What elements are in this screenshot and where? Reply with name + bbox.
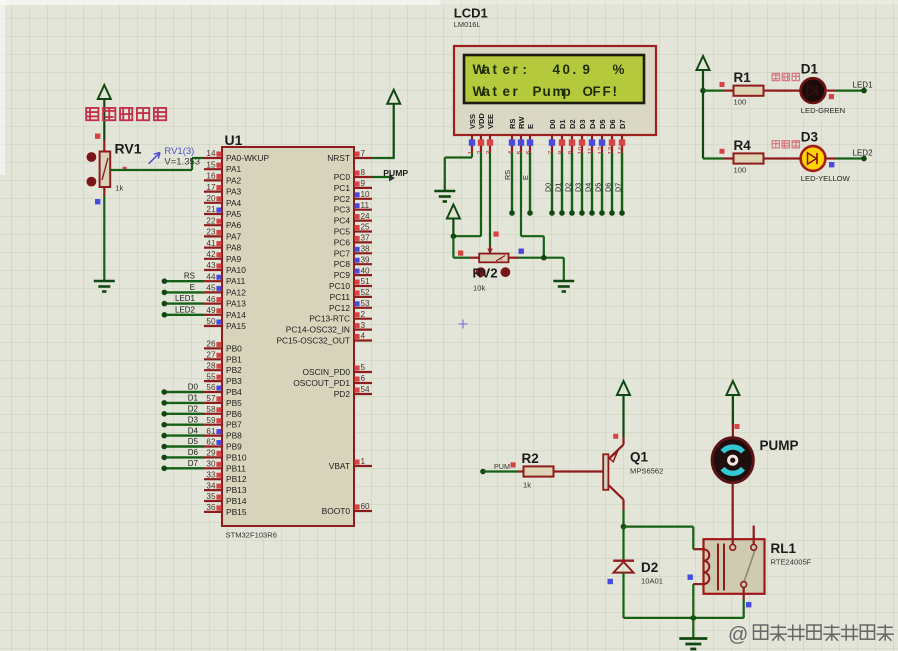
wire net D2 to U1 xyxy=(161,405,204,417)
svg-text:59: 59 xyxy=(206,416,216,425)
svg-text:LED2: LED2 xyxy=(175,305,196,314)
svg-text:RS: RS xyxy=(508,119,517,129)
svg-text:21: 21 xyxy=(206,205,216,214)
wire LCD D0 down with node xyxy=(544,153,555,216)
svg-text:9: 9 xyxy=(583,62,590,77)
svg-text:PUM: PUM xyxy=(494,462,510,471)
IC U1 microcontroller STM32F103R6 body xyxy=(222,147,354,526)
wire LCD E down with node xyxy=(521,153,533,216)
wire net LED1 to U1 xyxy=(162,294,204,306)
svg-text:D6: D6 xyxy=(188,448,199,457)
U1 pin 37 (PC6) xyxy=(334,234,372,248)
wire power to motor xyxy=(732,424,734,439)
svg-text:PA5: PA5 xyxy=(226,209,242,219)
svg-text:39: 39 xyxy=(361,255,371,264)
U1 pin 62 (PB9) xyxy=(204,438,242,452)
svg-text:D7: D7 xyxy=(188,459,199,468)
svg-text:%: % xyxy=(499,256,503,261)
svg-text:28: 28 xyxy=(206,361,216,370)
svg-text:9: 9 xyxy=(361,179,366,188)
LCD pin 3 (VEE) xyxy=(486,114,495,155)
LCD text line 1: Water: 40.9 % xyxy=(473,62,625,77)
wire D2 anode to ground rail xyxy=(622,573,624,618)
svg-text:16: 16 xyxy=(206,172,216,181)
node junction collector/D2/relay coil xyxy=(621,524,627,530)
wire LCD VSS to ground xyxy=(445,153,472,191)
svg-text:PC14-OSC32_IN: PC14-OSC32_IN xyxy=(286,325,350,335)
svg-text:2: 2 xyxy=(361,310,366,319)
wire net E to U1 xyxy=(162,283,204,295)
svg-text:PB5: PB5 xyxy=(226,398,242,408)
svg-text:40: 40 xyxy=(361,266,371,275)
svg-text:38: 38 xyxy=(361,245,371,254)
svg-text:LED-YELLOW: LED-YELLOW xyxy=(801,174,851,183)
U1 pin 46 (PA13) xyxy=(204,295,246,309)
svg-text:D6: D6 xyxy=(608,119,617,129)
svg-text:100: 100 xyxy=(734,165,747,174)
wire RV1 top lead xyxy=(103,140,105,152)
svg-text:22: 22 xyxy=(206,216,216,225)
svg-text:RS: RS xyxy=(184,272,195,281)
U1 pin 50 (PA15) xyxy=(204,317,246,331)
U1 pin 11 (PC3) xyxy=(334,201,372,215)
LCD pin 4 (RS) xyxy=(508,119,517,155)
origin marker blue cross xyxy=(459,320,468,329)
svg-text:PUMP: PUMP xyxy=(760,438,799,453)
pin marker red R2 left xyxy=(511,462,516,467)
wire net D7 to U1 xyxy=(161,459,204,471)
LCD pin 7 (D0) xyxy=(548,119,557,154)
RV1 wiper marker xyxy=(123,167,127,171)
svg-text:STM32F103R6: STM32F103R6 xyxy=(226,531,278,540)
svg-text:PC11: PC11 xyxy=(330,292,351,302)
wire net PUMP at U1 PC0 xyxy=(372,175,395,182)
svg-text:PC7: PC7 xyxy=(334,248,351,258)
svg-text:PC15-OSC32_OUT: PC15-OSC32_OUT xyxy=(276,336,350,346)
svg-text:D4: D4 xyxy=(188,426,199,435)
svg-text:V=1.353: V=1.353 xyxy=(164,156,200,167)
LCD pin 12 (D5) xyxy=(598,119,607,154)
svg-text:PA0-WKUP: PA0-WKUP xyxy=(226,153,270,163)
U1 pin 49 (PA14) xyxy=(204,306,246,320)
svg-text:PB10: PB10 xyxy=(226,452,247,462)
svg-text:3: 3 xyxy=(361,321,366,330)
wire LCD VDD to power xyxy=(453,153,481,237)
U1 pin 29 (PB10) xyxy=(204,449,247,463)
svg-text:53: 53 xyxy=(361,299,371,308)
svg-text:PC13-RTC: PC13-RTC xyxy=(309,314,350,324)
U1 pin 3 (PC14-OSC32_IN) xyxy=(286,321,372,335)
svg-text:25: 25 xyxy=(361,223,371,232)
wire D1 to LED1 node xyxy=(825,89,864,91)
svg-text:PB15: PB15 xyxy=(226,507,247,517)
wire Q1 collector to junction xyxy=(622,510,624,527)
U1 pin 39 (PC8) xyxy=(334,255,372,269)
svg-text:D4: D4 xyxy=(588,119,597,129)
U1 pin 45 (PA12) xyxy=(204,284,246,298)
U1 pin 54 (PD2) xyxy=(334,385,372,399)
svg-text:PC2: PC2 xyxy=(334,194,351,204)
U1 pin 33 (PB12) xyxy=(204,470,247,484)
LCD pin 11 (D4) xyxy=(588,119,597,155)
svg-text:BOOT0: BOOT0 xyxy=(322,506,351,516)
U1 pin 2 (PC13-RTC) xyxy=(309,310,372,324)
svg-text:29: 29 xyxy=(206,449,216,458)
LCD pin 14 (D7) xyxy=(618,119,627,154)
svg-text:Q1: Q1 xyxy=(630,450,649,465)
svg-text:PA14: PA14 xyxy=(226,310,246,320)
svg-text:10A01: 10A01 xyxy=(641,577,663,586)
U1 pin 21 (PA5) xyxy=(204,205,242,219)
U1 pin 60 (BOOT0) xyxy=(322,502,372,516)
svg-text:30: 30 xyxy=(206,460,216,469)
svg-text:14: 14 xyxy=(206,149,216,158)
svg-text:U1: U1 xyxy=(225,132,243,148)
svg-text:PC3: PC3 xyxy=(334,205,351,215)
svg-text:34: 34 xyxy=(206,481,216,490)
U1 pin 42 (PA9) xyxy=(204,250,242,264)
svg-text:20: 20 xyxy=(206,194,216,203)
wire LCD D5 down with node xyxy=(594,153,605,216)
svg-text:62: 62 xyxy=(206,438,216,447)
LCD screen xyxy=(464,55,644,103)
svg-text:p: p xyxy=(563,84,571,99)
svg-text:15: 15 xyxy=(206,160,216,169)
wire LCD D4 down with node xyxy=(584,153,595,216)
U1 pin 10 (PC2) xyxy=(334,190,372,204)
power symbol +V above RV1 xyxy=(98,85,111,140)
U1 pin 40 (PC9) xyxy=(334,266,372,280)
svg-text:42: 42 xyxy=(206,250,216,259)
svg-text:60: 60 xyxy=(361,502,371,511)
wire NRST to power xyxy=(372,157,395,159)
wire net D0 to U1 xyxy=(161,383,204,395)
U1 pin 36 (PB15) xyxy=(204,503,247,517)
svg-text:PA1: PA1 xyxy=(226,164,242,174)
svg-text:LCD1: LCD1 xyxy=(454,6,488,21)
U1 pin 20 (PA4) xyxy=(204,194,242,208)
svg-text:F: F xyxy=(603,84,611,99)
svg-text:PA3: PA3 xyxy=(226,187,242,197)
svg-text:PB12: PB12 xyxy=(226,474,247,484)
relay NC stub pin xyxy=(753,526,755,545)
pin marker red RV2 left xyxy=(458,251,463,256)
wire D3 to LED2 node xyxy=(825,157,864,159)
svg-text:PB9: PB9 xyxy=(226,442,242,452)
resistor R1 xyxy=(724,86,774,96)
LCD pin 1 (VSS) xyxy=(468,114,477,155)
svg-text:PB14: PB14 xyxy=(226,496,247,506)
wire LCD RS down with node xyxy=(503,153,515,216)
svg-text:D5: D5 xyxy=(594,183,603,192)
svg-text:55: 55 xyxy=(206,372,216,381)
svg-text:PB7: PB7 xyxy=(226,420,242,430)
ground for RW and RV2 xyxy=(553,280,574,283)
LCD LM016L module body xyxy=(454,46,656,135)
wire LCD D7 down with node xyxy=(614,153,625,216)
svg-text:PC4: PC4 xyxy=(334,216,351,226)
svg-text:D1: D1 xyxy=(554,183,563,192)
svg-text:100: 100 xyxy=(734,98,747,107)
svg-text:PB13: PB13 xyxy=(226,485,247,495)
U1 pin 9 (PC1) xyxy=(334,179,372,193)
wire junction to relay coil top xyxy=(624,527,704,550)
LCD pin 5 (RW) xyxy=(517,116,526,155)
svg-text:51: 51 xyxy=(361,277,371,286)
U1 pin 59 (PB7) xyxy=(204,416,242,430)
svg-text:D0: D0 xyxy=(544,183,553,192)
svg-text:1k: 1k xyxy=(523,481,531,490)
svg-text:57: 57 xyxy=(206,394,216,403)
svg-text:a: a xyxy=(483,62,491,77)
svg-text:e: e xyxy=(503,84,510,99)
svg-text:D3: D3 xyxy=(188,415,199,424)
U1 pin 7 (NRST) xyxy=(327,149,372,163)
svg-text:E: E xyxy=(190,283,195,292)
ground bottom rail xyxy=(679,637,707,640)
U1 pin 23 (PA7) xyxy=(204,228,242,242)
wire net RS to U1 xyxy=(162,272,204,284)
power symbol +V for LCD VDD xyxy=(447,205,460,219)
resistor R2 xyxy=(517,466,603,476)
U1 pin 25 (PC5) xyxy=(334,223,372,237)
power symbol +V at Q1 emitter xyxy=(617,381,630,437)
svg-text:PA12: PA12 xyxy=(226,287,246,297)
wire RV2 right to ground, joined by LCD RW xyxy=(509,153,564,281)
power symbol +V for LEDs xyxy=(697,56,710,159)
wire net D1 to U1 xyxy=(161,394,204,406)
svg-text:D2: D2 xyxy=(188,405,199,414)
svg-text:D0: D0 xyxy=(188,383,199,392)
label 液位传感器 (liquid level sensor) xyxy=(86,108,98,120)
svg-text:5: 5 xyxy=(361,363,366,372)
U1 pin 24 (PC4) xyxy=(334,212,372,226)
U1 pin 14 (PA0-WKUP) xyxy=(204,149,270,163)
svg-text:PA10: PA10 xyxy=(226,265,246,275)
pin marker red RV1 top xyxy=(95,134,100,139)
svg-text:PB6: PB6 xyxy=(226,409,242,419)
svg-text:1k: 1k xyxy=(115,184,123,193)
wire R4 to D3 xyxy=(774,157,801,159)
U1 pin 35 (PB14) xyxy=(204,492,247,506)
svg-text:!: ! xyxy=(613,84,617,99)
U1 pin 15 (PA1) xyxy=(204,160,242,174)
svg-text:t: t xyxy=(493,84,498,99)
U1 pin 6 (OSCOUT_PD1) xyxy=(293,374,372,388)
LCD pin 9 (D2) xyxy=(568,119,577,154)
U1 pin 53 (PC12) xyxy=(329,299,372,313)
node junction ground rail xyxy=(691,615,697,621)
svg-text:PB11: PB11 xyxy=(226,463,246,473)
potentiometer RV1 body xyxy=(100,152,111,188)
svg-text:VBAT: VBAT xyxy=(329,461,350,471)
svg-text:PD2: PD2 xyxy=(334,389,351,399)
relay RL1 RTE24005F body xyxy=(704,539,765,594)
U1 pin 1 (VBAT) xyxy=(329,457,372,471)
svg-text:LED-GREEN: LED-GREEN xyxy=(801,106,845,115)
node LED1 xyxy=(861,88,867,94)
wire net LED2 to U1 xyxy=(162,305,204,317)
svg-text:R1: R1 xyxy=(734,70,752,85)
svg-text:58: 58 xyxy=(206,405,216,414)
svg-text:50: 50 xyxy=(206,317,216,326)
U1 pin 56 (PB4) xyxy=(204,383,242,397)
svg-text:36: 36 xyxy=(206,503,216,512)
RV1 adjust buttons xyxy=(87,152,97,162)
pin marker blue RV1 bottom xyxy=(95,199,100,204)
svg-text:RL1: RL1 xyxy=(771,541,797,556)
svg-text:D0: D0 xyxy=(548,119,557,129)
svg-text:PC12: PC12 xyxy=(329,303,350,313)
svg-text:PA4: PA4 xyxy=(226,198,242,208)
svg-text:PA2: PA2 xyxy=(226,175,242,185)
U1 pin 28 (PB2) xyxy=(204,361,242,375)
svg-text:MPS6562: MPS6562 xyxy=(630,467,663,476)
voltage probe label RV1(3) xyxy=(149,146,195,164)
svg-text:@: @ xyxy=(728,624,748,646)
LCD pin 2 (VDD) xyxy=(477,113,486,155)
RV2 adjust buttons xyxy=(476,267,486,277)
U1 pin 44 (PA11) xyxy=(204,272,246,286)
svg-text:D1: D1 xyxy=(188,394,199,403)
LCD pin 13 (D6) xyxy=(608,119,617,154)
svg-text:PC5: PC5 xyxy=(334,227,351,237)
svg-text:O: O xyxy=(583,84,593,99)
svg-text:%: % xyxy=(613,62,625,77)
U1 pin 43 (PA10) xyxy=(204,261,246,275)
node PUM input xyxy=(480,469,486,475)
svg-text:45: 45 xyxy=(206,284,216,293)
wire net D6 to U1 xyxy=(161,448,204,460)
LCD pin 6 (E) xyxy=(526,124,535,155)
U1 pin 41 (PA8) xyxy=(204,239,242,253)
pin marker blue relay coil bottom xyxy=(688,575,693,580)
svg-text::: : xyxy=(523,62,527,77)
svg-text:1: 1 xyxy=(361,457,366,466)
svg-text:PUMP: PUMP xyxy=(383,168,408,178)
U1 pin 34 (PB13) xyxy=(204,481,247,495)
svg-text:52: 52 xyxy=(361,288,371,297)
svg-text:.: . xyxy=(573,62,577,77)
pin marker red D1 right xyxy=(829,94,834,99)
U1 pin 8 (PC0) xyxy=(334,168,372,182)
svg-text:RS: RS xyxy=(503,170,512,180)
U1 pin 16 (PA2) xyxy=(204,172,242,186)
svg-text:PB3: PB3 xyxy=(226,376,242,386)
svg-text:41: 41 xyxy=(206,239,216,248)
svg-text:LM016L: LM016L xyxy=(454,20,481,29)
svg-text:D3: D3 xyxy=(574,183,583,192)
pin marker red motor top xyxy=(735,424,740,429)
svg-text:7: 7 xyxy=(361,149,366,158)
pin marker blue relay common xyxy=(746,602,751,607)
svg-text:D5: D5 xyxy=(188,437,199,446)
svg-text:NRST: NRST xyxy=(327,153,350,163)
svg-text:r: r xyxy=(513,62,519,77)
svg-text:33: 33 xyxy=(206,470,216,479)
svg-text:11: 11 xyxy=(361,201,370,210)
U1 pin 61 (PB8) xyxy=(204,427,242,441)
svg-text:VEE: VEE xyxy=(486,114,495,129)
ground below RV1 xyxy=(94,280,115,283)
U1 pin 57 (PB5) xyxy=(204,394,242,408)
svg-text:D7: D7 xyxy=(614,183,623,192)
svg-text:27: 27 xyxy=(206,351,216,360)
svg-text:4: 4 xyxy=(361,332,366,341)
svg-text:PC9: PC9 xyxy=(334,270,351,280)
wire power to R4 branch xyxy=(703,157,724,159)
svg-text:D2: D2 xyxy=(568,119,577,129)
svg-text:46: 46 xyxy=(206,295,216,304)
svg-text:u: u xyxy=(543,84,551,99)
U1 pin 55 (PB3) xyxy=(204,372,242,386)
label 水泵关 (pump off) xyxy=(772,141,779,148)
svg-text:8: 8 xyxy=(361,168,366,177)
svg-text:54: 54 xyxy=(361,385,371,394)
wire RV1 wiper to U1 PA0 pin 14 xyxy=(110,158,204,170)
svg-text:26: 26 xyxy=(206,340,216,349)
U1 pin 30 (PB11) xyxy=(204,460,246,474)
pin marker red Q1 emitter xyxy=(613,434,618,439)
svg-text:43: 43 xyxy=(206,261,216,270)
wire net D5 to U1 xyxy=(161,437,204,449)
svg-text:R2: R2 xyxy=(522,451,539,466)
pin marker red R1 left xyxy=(720,82,725,87)
svg-text:PC0: PC0 xyxy=(334,172,351,182)
U1 pin 5 (OSCIN_PD0) xyxy=(303,363,372,377)
svg-text:D7: D7 xyxy=(618,119,627,129)
svg-text:23: 23 xyxy=(206,228,216,237)
U1 pin 51 (PC10) xyxy=(329,277,372,291)
svg-text:PA6: PA6 xyxy=(226,220,242,230)
resistor R4 xyxy=(724,153,774,163)
wire net D3 to U1 xyxy=(161,415,204,427)
wire power junction to R1 xyxy=(703,89,724,91)
svg-text:D1: D1 xyxy=(801,62,819,77)
node junction at R1 branch xyxy=(700,88,706,94)
svg-text:D6: D6 xyxy=(604,183,613,192)
svg-text:OSCOUT_PD1: OSCOUT_PD1 xyxy=(293,378,350,388)
pin marker red above RV2 wiper xyxy=(494,232,499,237)
transistor Q1 MPS6562 (PNP) xyxy=(603,437,623,510)
svg-text:17: 17 xyxy=(206,183,216,192)
svg-text:0: 0 xyxy=(563,62,570,77)
svg-text:E: E xyxy=(521,175,530,180)
svg-text:LED1: LED1 xyxy=(175,294,196,303)
svg-text:PC8: PC8 xyxy=(334,259,351,269)
pin marker blue RV2 right xyxy=(519,249,524,254)
svg-text:56: 56 xyxy=(206,383,216,392)
svg-text:RV2: RV2 xyxy=(473,266,498,281)
svg-text:D3: D3 xyxy=(578,119,587,129)
wire junction down to D2 xyxy=(622,527,624,560)
U1 pin 4 (PC15-OSC32_OUT) xyxy=(276,332,372,346)
svg-text:PC10: PC10 xyxy=(329,281,350,291)
svg-text:PA15: PA15 xyxy=(226,321,246,331)
diode D2 flyback 10A01 xyxy=(613,561,634,573)
wire LCD D6 down with node xyxy=(604,153,615,216)
diode D3 LED-YELLOW (lit) xyxy=(801,146,826,171)
U1 pin 26 (PB0) xyxy=(204,340,242,354)
LCD pin 8 (D1) xyxy=(558,119,567,154)
svg-text:24: 24 xyxy=(361,212,371,221)
wire ground rail bottom xyxy=(624,617,744,619)
pin marker blue D2 xyxy=(608,579,613,584)
svg-text:F: F xyxy=(593,84,601,99)
svg-text:PB4: PB4 xyxy=(226,387,242,397)
svg-text:D2: D2 xyxy=(641,560,658,575)
LCD text line 2: Water Pump OFF! xyxy=(473,84,617,99)
